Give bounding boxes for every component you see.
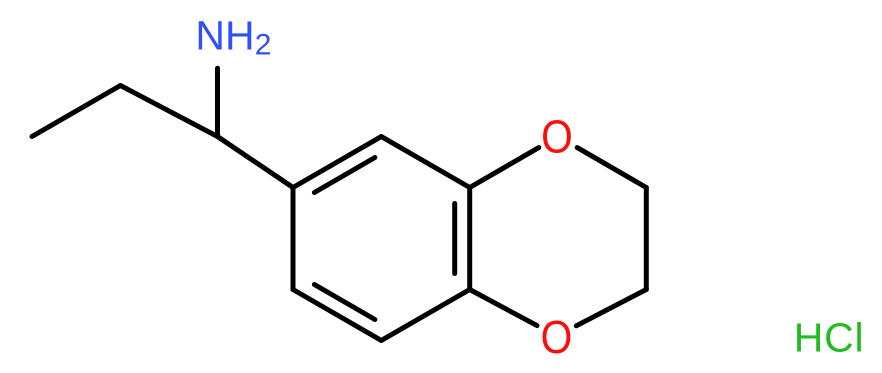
bond C8a-O1 xyxy=(470,148,539,188)
svg-text:2: 2 xyxy=(255,29,272,62)
bond C3-O4 xyxy=(576,290,646,326)
label NH2 xyxy=(195,13,271,62)
benzene edge C7-C8 xyxy=(293,137,381,188)
benzene edge C8a-C4a (fusion) xyxy=(467,188,472,290)
bond CH3-CH2 xyxy=(32,86,120,137)
svg-text:O: O xyxy=(541,112,573,163)
benzene edge C6-C7 xyxy=(291,188,296,290)
bond C2-C3 xyxy=(644,188,649,290)
bond CH2-CH xyxy=(120,86,217,137)
svg-text:O: O xyxy=(541,313,573,364)
benzene double inner C7=C8 xyxy=(314,158,375,193)
svg-text:NH: NH xyxy=(195,13,254,59)
benzene edge C4a-C5 xyxy=(381,290,469,341)
bond CH-C7 xyxy=(218,137,294,188)
bond O4-C4a xyxy=(470,290,537,326)
benzene edge C5-C6 xyxy=(293,290,381,341)
bond CH-NH2 xyxy=(215,68,220,136)
benzene double inner C8a=C4a xyxy=(452,204,457,274)
bond O1-C2 xyxy=(577,148,646,188)
svg-text:HCl: HCl xyxy=(794,314,865,360)
benzene double inner C5=C6 xyxy=(314,285,375,320)
benzene edge C8-C8a xyxy=(381,137,469,188)
